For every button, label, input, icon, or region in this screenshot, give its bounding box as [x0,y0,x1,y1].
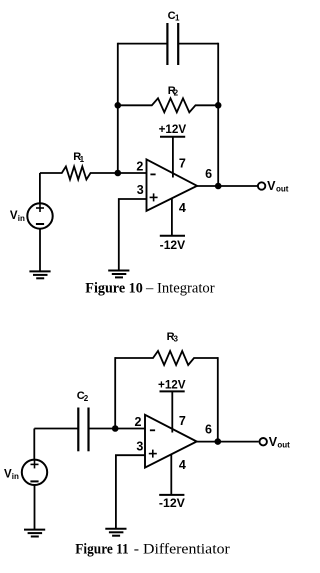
node right R2 junction [215,102,222,109]
resistor R2 [118,85,218,112]
svg-text:2: 2 [174,88,179,97]
svg-text:V: V [4,468,12,480]
node output junction (bottom) [215,438,222,445]
svg-text:V: V [10,210,18,222]
svg-text:Figure 11- Differentiator: Figure 11- Differentiator [75,542,230,558]
wire feedback left vertical [117,43,119,173]
-12V supply (bottom) [159,454,185,510]
ground below Vin [29,271,50,278]
wire pin3 to ground [119,199,147,270]
node input junction [115,170,122,177]
resistor R3 [115,331,218,365]
terminal Vout (bottom) [260,435,291,450]
resistor R1 [40,151,147,180]
svg-text:1: 1 [80,155,85,164]
op-amp U1 [136,156,212,215]
+12V supply (bottom) [158,379,186,432]
svg-text:2: 2 [135,415,142,429]
svg-text:2: 2 [136,160,143,174]
capacitor C2 [77,390,89,451]
wire input left of C2 [34,428,78,430]
svg-text:7: 7 [179,414,186,428]
+12V supply [159,124,187,177]
wire C2 to pin2 [89,428,146,430]
svg-text:out: out [276,185,289,194]
ground at pin3 (bottom) [105,529,126,536]
source Vin [10,173,53,271]
svg-text:-12V: -12V [160,240,186,252]
ground below Vin (bottom) [24,530,45,537]
wire output [197,185,257,187]
svg-text:3: 3 [174,334,179,343]
svg-text:in: in [18,214,25,223]
svg-text:6: 6 [205,167,212,181]
ground at pin3 [108,271,129,278]
op-amp U2 [135,414,213,472]
node output junction [215,183,222,190]
svg-text:6: 6 [205,422,212,436]
terminal Vout [258,179,289,194]
svg-text:3: 3 [137,183,144,197]
svg-text:V: V [269,435,278,449]
wire top rail right [178,43,218,45]
wire feedback left vertical (bottom) [114,357,116,428]
svg-text:in: in [12,472,19,481]
wire feedback right vertical (bottom) [217,357,219,442]
svg-text:Figure 10– Integrator: Figure 10– Integrator [85,280,214,296]
svg-text:7: 7 [179,156,186,170]
node input junction (bottom) [112,425,119,432]
svg-text:out: out [277,441,290,450]
svg-text:-12V: -12V [159,498,185,510]
svg-text:3: 3 [136,440,143,454]
node left R2 junction [115,102,122,109]
svg-text:4: 4 [179,458,186,472]
svg-text:2: 2 [84,394,89,403]
svg-text:+12V: +12V [159,124,187,136]
source Vin (bottom) [4,429,47,530]
wire pin3 to ground (bottom) [116,455,145,528]
svg-text:4: 4 [179,201,186,215]
capacitor C1 [167,10,180,65]
wire output (bottom) [197,441,259,443]
wire top rail left [118,43,168,45]
-12V supply [160,198,186,252]
wire feedback right vertical [217,43,219,186]
svg-text:V: V [267,179,276,193]
svg-text:1: 1 [175,14,180,23]
svg-text:+12V: +12V [158,379,186,391]
